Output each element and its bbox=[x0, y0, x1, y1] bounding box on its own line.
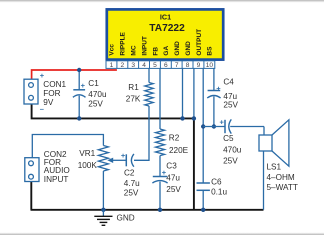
ground symbol bbox=[94, 210, 112, 226]
svg-text:C1: C1 bbox=[88, 79, 99, 88]
node dot pin 8 ground bbox=[192, 116, 196, 120]
svg-text:4.7u: 4.7u bbox=[124, 179, 140, 188]
svg-text:9: 9 bbox=[197, 62, 201, 69]
node dot output at pin 9 wire bbox=[201, 124, 205, 128]
svg-text:INPUT: INPUT bbox=[44, 175, 69, 184]
svg-text:0.1u: 0.1u bbox=[211, 188, 227, 197]
connector CON2 bbox=[25, 158, 39, 182]
CON1 label bbox=[43, 80, 66, 107]
svg-text:AUDIO: AUDIO bbox=[44, 166, 70, 175]
svg-text:25V: 25V bbox=[124, 188, 139, 197]
C4 label bbox=[223, 77, 238, 109]
wire pin 9 output down to C6 bbox=[202, 68, 204, 183]
wire pin 8 to ground rail bbox=[193, 68, 195, 118]
node dot pin 7 ground bbox=[180, 116, 184, 120]
wire V+ red rail CON1 to pin 1 bbox=[32, 70, 117, 79]
svg-text:+: + bbox=[220, 117, 225, 126]
svg-text:FOR: FOR bbox=[43, 89, 60, 98]
R2 label bbox=[169, 133, 189, 155]
resistor R2 bbox=[156, 68, 165, 176]
svg-text:100K: 100K bbox=[78, 161, 98, 170]
wire ground rail CON1 to pin 8 and down bbox=[32, 104, 194, 210]
pin numbers 1-10 bbox=[110, 62, 214, 69]
svg-text:6: 6 bbox=[164, 62, 168, 69]
svg-text:8: 8 bbox=[186, 62, 190, 69]
svg-text:25V: 25V bbox=[88, 99, 103, 108]
svg-text:Vcc: Vcc bbox=[109, 44, 116, 56]
svg-text:GND: GND bbox=[117, 214, 135, 223]
R1 label bbox=[126, 83, 141, 103]
VR1 wiper arrow head bbox=[107, 158, 113, 163]
resistor R1 bbox=[134, 68, 153, 160]
svg-text:10: 10 bbox=[206, 62, 214, 69]
C5 label bbox=[223, 134, 242, 166]
svg-text:R2: R2 bbox=[169, 133, 180, 142]
svg-text:5–WATT: 5–WATT bbox=[267, 183, 298, 192]
svg-text:RIPPLE: RIPPLE bbox=[120, 31, 127, 55]
svg-text:470u: 470u bbox=[223, 145, 242, 154]
svg-text:47u: 47u bbox=[166, 174, 180, 183]
svg-text:LS1: LS1 bbox=[267, 163, 282, 172]
node dot C1 bottom on ground rail bbox=[77, 116, 81, 120]
CON2 label bbox=[44, 150, 70, 184]
svg-text:TA7222: TA7222 bbox=[149, 23, 185, 34]
svg-text:C6: C6 bbox=[211, 177, 222, 186]
svg-text:C2: C2 bbox=[124, 168, 135, 177]
svg-text:C5: C5 bbox=[223, 134, 234, 143]
node dot C1 top on V+ rail bbox=[77, 68, 81, 72]
svg-text:7: 7 bbox=[175, 62, 179, 69]
VR1 label bbox=[78, 149, 98, 170]
svg-text:MC: MC bbox=[131, 45, 138, 55]
potentiometer VR1 bbox=[98, 146, 126, 210]
svg-text:9V: 9V bbox=[43, 98, 54, 107]
C1 label bbox=[88, 79, 107, 108]
wire bottom ground rail bbox=[31, 182, 264, 210]
IC U1 TA7222 body bbox=[107, 9, 223, 59]
svg-text:GND: GND bbox=[185, 41, 192, 56]
connector CON1 bbox=[24, 79, 38, 104]
svg-text:FB: FB bbox=[152, 47, 159, 56]
node dot C6 bottom on ground rail bbox=[201, 208, 205, 212]
svg-text:+: + bbox=[216, 84, 221, 93]
svg-text:25V: 25V bbox=[223, 101, 238, 110]
svg-text:OUTPUT: OUTPUT bbox=[196, 29, 203, 56]
LS1 label bbox=[267, 163, 298, 192]
svg-text:BS: BS bbox=[207, 46, 214, 56]
svg-text:4: 4 bbox=[142, 62, 146, 69]
node dot VR1 bottom ground bbox=[101, 208, 105, 212]
node dot C4 at output node bbox=[212, 124, 216, 128]
wire output node to C5 bbox=[203, 126, 225, 128]
wire pin 7 to ground rail bbox=[182, 68, 184, 118]
svg-text:27K: 27K bbox=[126, 94, 141, 103]
svg-text:4–OHM: 4–OHM bbox=[267, 173, 295, 182]
svg-text:INPUT: INPUT bbox=[141, 36, 148, 56]
svg-text:+: + bbox=[81, 81, 86, 90]
svg-text:GA: GA bbox=[163, 46, 170, 56]
svg-text:220E: 220E bbox=[169, 146, 189, 155]
wire CON2 to VR1 top bbox=[32, 135, 103, 158]
svg-text:25V: 25V bbox=[166, 185, 181, 194]
svg-text:2: 2 bbox=[120, 62, 124, 69]
svg-text:3: 3 bbox=[131, 62, 135, 69]
svg-text:1: 1 bbox=[110, 62, 114, 69]
capacitor C1 bbox=[73, 70, 86, 118]
svg-text:R1: R1 bbox=[128, 83, 139, 92]
svg-text:470u: 470u bbox=[88, 90, 107, 99]
capacitor C5 bbox=[225, 119, 264, 133]
capacitor C6 bbox=[197, 183, 210, 210]
svg-text:GND: GND bbox=[174, 41, 181, 56]
capacitor C3 bbox=[152, 177, 167, 210]
svg-text:+: + bbox=[40, 71, 45, 80]
C3 label bbox=[166, 162, 181, 195]
speaker LS1 bbox=[259, 120, 289, 210]
svg-text:5: 5 bbox=[153, 62, 157, 69]
capacitor C2 bbox=[126, 154, 134, 167]
svg-text:C3: C3 bbox=[166, 162, 177, 171]
IC pin number boxes row bbox=[106, 61, 215, 69]
svg-text:+: + bbox=[121, 151, 126, 160]
svg-text:IC1: IC1 bbox=[160, 13, 171, 22]
C6 label bbox=[211, 177, 227, 196]
capacitor C4 bootstrap bbox=[207, 68, 220, 126]
svg-text:CON1: CON1 bbox=[43, 80, 66, 89]
C2 label bbox=[124, 168, 140, 197]
svg-text:25V: 25V bbox=[223, 156, 238, 165]
node dot C3 bottom on ground rail bbox=[158, 208, 162, 212]
svg-text:VR1: VR1 bbox=[79, 149, 95, 158]
svg-text:C4: C4 bbox=[223, 77, 234, 86]
